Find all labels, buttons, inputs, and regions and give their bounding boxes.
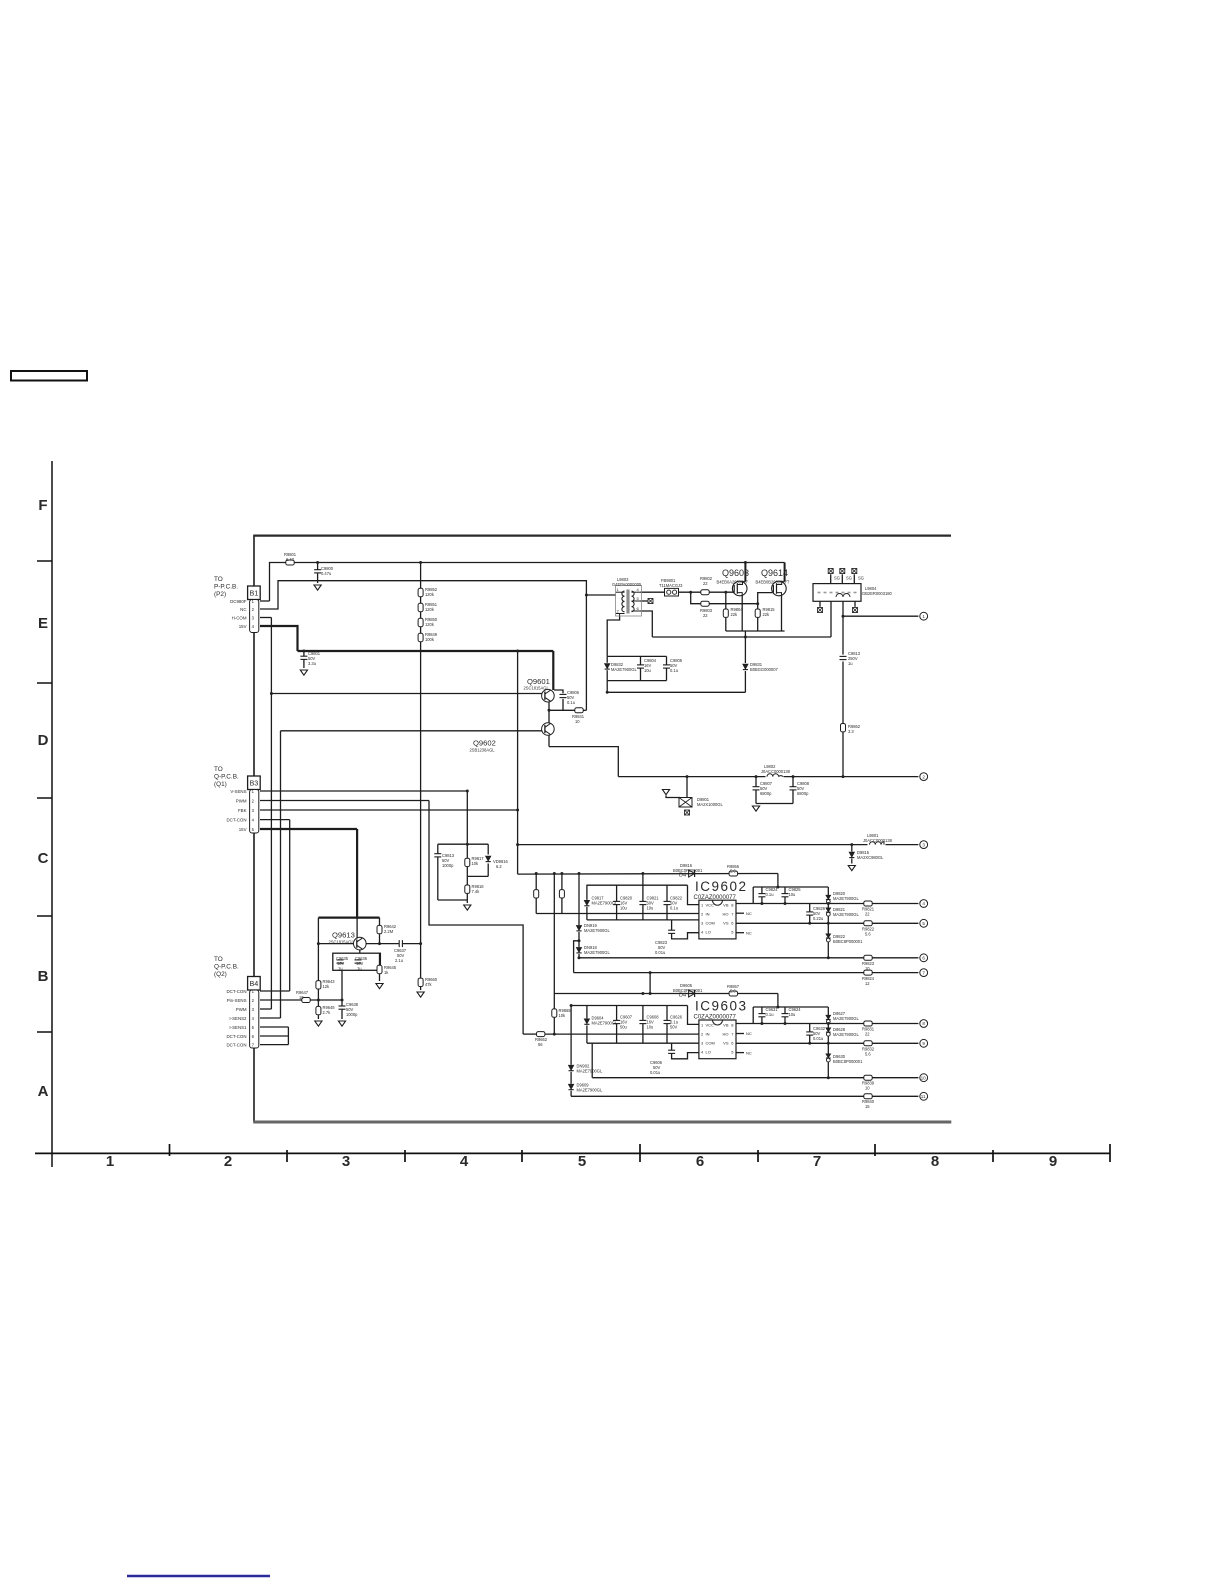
svg-text:LO: LO bbox=[706, 930, 711, 935]
svg-text:2: 2 bbox=[617, 609, 620, 614]
svg-text:1: 1 bbox=[922, 614, 925, 619]
svg-text:PWM: PWM bbox=[236, 799, 247, 804]
svg-text:12: 12 bbox=[865, 981, 870, 986]
svg-text:COM: COM bbox=[706, 1041, 715, 1046]
svg-text:6: 6 bbox=[637, 606, 640, 611]
svg-text:TO: TO bbox=[214, 766, 223, 773]
svg-text:DCT-CON: DCT-CON bbox=[227, 1043, 247, 1048]
svg-text:DCT-CON: DCT-CON bbox=[227, 818, 247, 823]
svg-text:3.3u: 3.3u bbox=[308, 661, 316, 666]
svg-text:0.22u: 0.22u bbox=[813, 916, 823, 921]
svg-text:D4: D4 bbox=[679, 993, 686, 999]
svg-text:MA2E7900GL: MA2E7900GL bbox=[833, 1016, 859, 1021]
svg-text:(Q2): (Q2) bbox=[214, 971, 227, 978]
svg-text:D4: D4 bbox=[679, 873, 686, 879]
svg-text:0.1u: 0.1u bbox=[567, 700, 575, 705]
svg-text:10: 10 bbox=[299, 995, 304, 1000]
svg-text:12k: 12k bbox=[323, 984, 331, 989]
svg-text:NC: NC bbox=[746, 911, 752, 916]
svg-text:B0BC8P000001: B0BC8P000001 bbox=[833, 1059, 863, 1064]
svg-text:1k: 1k bbox=[384, 970, 389, 975]
svg-text:5.6: 5.6 bbox=[730, 989, 736, 994]
svg-text:4: 4 bbox=[922, 901, 925, 906]
svg-text:T11MACGJ3: T11MACGJ3 bbox=[659, 583, 683, 588]
svg-text:MA2X1000GL: MA2X1000GL bbox=[697, 802, 723, 807]
svg-text:FBK: FBK bbox=[238, 808, 247, 813]
svg-text:1u: 1u bbox=[357, 966, 362, 971]
svg-text:J0ACC0000138: J0ACC0000138 bbox=[863, 838, 893, 843]
svg-text:B1: B1 bbox=[250, 588, 259, 597]
svg-text:10u: 10u bbox=[647, 1025, 654, 1030]
svg-text:5.6: 5.6 bbox=[865, 932, 871, 937]
svg-text:10k: 10k bbox=[559, 1013, 567, 1018]
svg-text:MA2XC980GL: MA2XC980GL bbox=[857, 855, 884, 860]
svg-text:MA2E7900GL: MA2E7900GL bbox=[833, 1032, 859, 1037]
svg-text:Q9613: Q9613 bbox=[332, 931, 355, 940]
svg-text:3.3: 3.3 bbox=[848, 729, 854, 734]
svg-text:IN: IN bbox=[706, 912, 710, 917]
svg-text:10u: 10u bbox=[620, 906, 627, 911]
svg-text:GB2ER0003180: GB2ER0003180 bbox=[862, 591, 893, 596]
svg-text:2SB1238AGL: 2SB1238AGL bbox=[470, 748, 496, 753]
svg-text:10: 10 bbox=[865, 966, 870, 971]
svg-text:B4EB0A2000047: B4EB0A2000047 bbox=[717, 580, 749, 585]
svg-text:9: 9 bbox=[922, 1041, 925, 1046]
svg-text:0.1u: 0.1u bbox=[766, 1012, 774, 1017]
svg-text:8: 8 bbox=[931, 1153, 939, 1170]
svg-text:I-SENS1: I-SENS1 bbox=[229, 1025, 247, 1030]
svg-text:B0BC8P000001: B0BC8P000001 bbox=[833, 939, 863, 944]
svg-text:6800p: 6800p bbox=[760, 791, 772, 796]
svg-text:Q-P.C.B.: Q-P.C.B. bbox=[214, 964, 239, 971]
svg-text:Q9614: Q9614 bbox=[761, 568, 788, 578]
svg-text:3: 3 bbox=[342, 1153, 350, 1170]
svg-text:0.01u: 0.01u bbox=[813, 1036, 823, 1041]
svg-text:B: B bbox=[38, 968, 49, 985]
svg-text:PWM: PWM bbox=[236, 1007, 247, 1012]
svg-text:IN: IN bbox=[706, 1032, 710, 1037]
svg-text:15V: 15V bbox=[239, 624, 247, 629]
svg-text:IC9602: IC9602 bbox=[695, 879, 748, 894]
svg-text:TO: TO bbox=[214, 576, 223, 583]
svg-text:MA2E7900GL: MA2E7900GL bbox=[577, 1069, 603, 1074]
svg-text:P-P.C.B.: P-P.C.B. bbox=[214, 584, 238, 591]
svg-text:2: 2 bbox=[922, 774, 925, 779]
svg-text:MA2E7900GL: MA2E7900GL bbox=[584, 928, 610, 933]
svg-text:VB: VB bbox=[723, 903, 729, 908]
svg-text:2.2M: 2.2M bbox=[384, 929, 394, 934]
svg-text:4: 4 bbox=[460, 1153, 469, 1170]
svg-text:NC: NC bbox=[746, 931, 752, 936]
svg-text:5: 5 bbox=[922, 921, 925, 926]
svg-text:10: 10 bbox=[575, 719, 580, 724]
svg-text:5: 5 bbox=[578, 1153, 586, 1170]
svg-text:120k: 120k bbox=[425, 592, 435, 597]
svg-text:B0BC0P000001: B0BC0P000001 bbox=[673, 868, 703, 873]
svg-text:MA2E7900GL: MA2E7900GL bbox=[584, 950, 610, 955]
svg-text:(Q1): (Q1) bbox=[214, 781, 227, 788]
svg-text:MA2E7900GL: MA2E7900GL bbox=[577, 1088, 603, 1093]
svg-text:I-SENS2: I-SENS2 bbox=[229, 1016, 247, 1021]
svg-text:6: 6 bbox=[696, 1153, 704, 1170]
svg-text:10u: 10u bbox=[789, 892, 796, 897]
svg-text:15: 15 bbox=[865, 1104, 870, 1109]
svg-text:HO: HO bbox=[723, 912, 729, 917]
svg-text:MA2E7900GL: MA2E7900GL bbox=[592, 1021, 618, 1026]
svg-text:SG: SG bbox=[846, 576, 852, 581]
svg-text:J0ACC0000138: J0ACC0000138 bbox=[761, 769, 791, 774]
svg-text:C0ZAZ0000077: C0ZAZ0000077 bbox=[694, 895, 737, 901]
svg-text:22: 22 bbox=[865, 1032, 870, 1037]
svg-text:7: 7 bbox=[922, 970, 925, 975]
svg-text:H-COM: H-COM bbox=[232, 616, 247, 621]
svg-text:0.1u: 0.1u bbox=[670, 668, 678, 673]
svg-text:DC980F: DC980F bbox=[230, 599, 247, 604]
svg-text:22: 22 bbox=[703, 581, 708, 586]
svg-text:VS: VS bbox=[723, 921, 729, 926]
svg-text:VCC: VCC bbox=[706, 1023, 715, 1028]
svg-text:3: 3 bbox=[922, 842, 925, 847]
svg-text:A: A bbox=[38, 1083, 49, 1100]
svg-text:C: C bbox=[38, 850, 49, 867]
svg-text:VCC: VCC bbox=[706, 903, 715, 908]
svg-text:NC: NC bbox=[746, 1031, 752, 1036]
svg-text:LO: LO bbox=[706, 1050, 711, 1055]
svg-text:C0ZAZ0000077: C0ZAZ0000077 bbox=[694, 1014, 737, 1020]
svg-text:Q9602: Q9602 bbox=[473, 739, 496, 748]
svg-text:B4EB0B2000047T: B4EB0B2000047T bbox=[756, 580, 790, 585]
svg-text:MA2E7900GL: MA2E7900GL bbox=[833, 912, 859, 917]
svg-text:6: 6 bbox=[922, 956, 925, 961]
svg-text:47k: 47k bbox=[425, 982, 433, 987]
svg-text:22k: 22k bbox=[763, 612, 771, 617]
svg-text:100k: 100k bbox=[425, 637, 435, 642]
svg-text:1u: 1u bbox=[338, 966, 343, 971]
svg-text:2: 2 bbox=[224, 1153, 232, 1170]
svg-text:NC: NC bbox=[240, 607, 246, 612]
svg-text:B0BC0P000001: B0BC0P000001 bbox=[673, 988, 703, 993]
svg-text:120k: 120k bbox=[425, 607, 435, 612]
svg-text:1000p: 1000p bbox=[442, 863, 454, 868]
svg-text:MA2E7900GL: MA2E7900GL bbox=[833, 896, 859, 901]
svg-text:4: 4 bbox=[637, 587, 640, 592]
svg-text:50u: 50u bbox=[620, 1025, 627, 1030]
svg-text:0.01u: 0.01u bbox=[655, 950, 665, 955]
svg-text:11: 11 bbox=[921, 1094, 926, 1099]
svg-text:DCT-CON: DCT-CON bbox=[227, 1034, 247, 1039]
svg-text:22: 22 bbox=[865, 912, 870, 917]
svg-text:NC: NC bbox=[746, 1051, 752, 1056]
svg-text:0.1u: 0.1u bbox=[766, 892, 774, 897]
svg-text:1000p: 1000p bbox=[346, 1012, 358, 1017]
svg-text:B0BGG000007: B0BGG000007 bbox=[750, 667, 778, 672]
svg-text:TO: TO bbox=[214, 956, 223, 963]
svg-text:22k: 22k bbox=[731, 612, 739, 617]
svg-text:120k: 120k bbox=[425, 622, 435, 627]
svg-text:1u: 1u bbox=[848, 661, 853, 666]
svg-text:1: 1 bbox=[617, 587, 620, 592]
svg-text:B4: B4 bbox=[250, 979, 259, 988]
svg-text:SG: SG bbox=[858, 576, 864, 581]
svg-text:VS: VS bbox=[723, 1041, 729, 1046]
svg-text:50V: 50V bbox=[670, 1025, 678, 1030]
svg-text:Q9603: Q9603 bbox=[722, 568, 749, 578]
svg-text:8: 8 bbox=[922, 1021, 925, 1026]
svg-text:0.01u: 0.01u bbox=[650, 1070, 660, 1075]
svg-text:10: 10 bbox=[921, 1075, 927, 1080]
svg-text:9: 9 bbox=[1049, 1153, 1057, 1170]
svg-text:COM: COM bbox=[706, 921, 715, 926]
svg-text:D: D bbox=[38, 732, 49, 749]
svg-text:Q-P.C.B.: Q-P.C.B. bbox=[214, 774, 239, 781]
svg-text:MA2E7900GL: MA2E7900GL bbox=[611, 667, 637, 672]
svg-text:IC9603: IC9603 bbox=[695, 999, 748, 1014]
svg-text:VB: VB bbox=[723, 1023, 729, 1028]
svg-text:V-SENS: V-SENS bbox=[230, 789, 246, 794]
svg-text:6800p: 6800p bbox=[797, 791, 809, 796]
svg-text:56: 56 bbox=[538, 1042, 543, 1047]
svg-text:0.1u: 0.1u bbox=[670, 906, 678, 911]
svg-text:5.6: 5.6 bbox=[865, 1052, 871, 1057]
svg-text:10u: 10u bbox=[647, 906, 654, 911]
svg-text:22: 22 bbox=[703, 613, 708, 618]
svg-text:F: F bbox=[38, 497, 47, 514]
svg-text:(P2): (P2) bbox=[214, 591, 226, 598]
svg-text:2.1u: 2.1u bbox=[395, 958, 403, 963]
svg-text:B3: B3 bbox=[250, 778, 259, 787]
svg-text:E: E bbox=[38, 615, 48, 632]
svg-text:2SC1815AGL: 2SC1815AGL bbox=[524, 686, 550, 691]
svg-text:10k: 10k bbox=[472, 861, 480, 866]
svg-text:DCT-CON: DCT-CON bbox=[227, 989, 247, 994]
svg-text:HO: HO bbox=[723, 1032, 729, 1037]
svg-text:10: 10 bbox=[865, 1086, 870, 1091]
svg-text:0.47u: 0.47u bbox=[321, 571, 331, 576]
svg-text:MA2E7900GL: MA2E7900GL bbox=[592, 901, 618, 906]
svg-text:2.7k: 2.7k bbox=[323, 1010, 332, 1015]
svg-text:5.6: 5.6 bbox=[730, 869, 736, 874]
svg-text:Pin-SENS: Pin-SENS bbox=[227, 998, 247, 1003]
svg-text:2SC1815AGL: 2SC1815AGL bbox=[329, 940, 355, 945]
svg-text:5: 5 bbox=[637, 596, 640, 601]
svg-text:6.2: 6.2 bbox=[496, 864, 502, 869]
svg-text:SG: SG bbox=[834, 576, 840, 581]
svg-text:10u: 10u bbox=[789, 1012, 796, 1017]
svg-text:1: 1 bbox=[106, 1153, 114, 1170]
svg-text:10u: 10u bbox=[644, 668, 651, 673]
svg-text:6.47: 6.47 bbox=[286, 557, 295, 562]
svg-text:7: 7 bbox=[813, 1153, 821, 1170]
svg-text:7.4k: 7.4k bbox=[472, 889, 481, 894]
svg-text:15V: 15V bbox=[239, 827, 247, 832]
